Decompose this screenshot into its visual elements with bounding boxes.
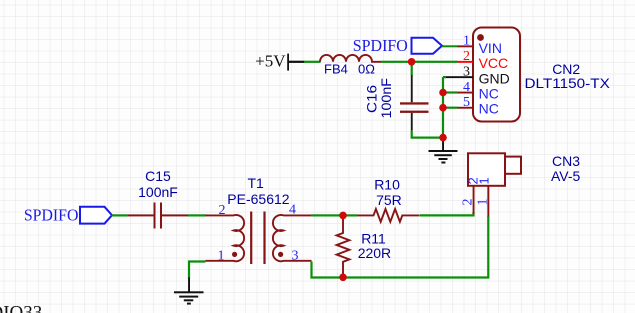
svg-text:R11: R11 [361,231,386,247]
node junction rail/C16 [408,58,416,66]
node R11 top junction [339,212,347,220]
wire R10 to CN3 pin2 [420,212,474,215]
capacitor C15 100nF [128,168,188,229]
svg-text:1: 1 [218,249,225,264]
pin 5 stub [458,107,474,109]
wire pin5 [443,107,458,109]
ground (top, GND net) [429,138,458,164]
wire junction down to C16 [411,62,413,75]
port SPDIFO (bottom) [24,206,112,225]
svg-text:2: 2 [219,203,226,218]
left polarity dot [232,252,237,257]
svg-text:+5V: +5V [255,52,286,71]
wire FB4 to junction to pin2 [381,61,458,63]
node ground junction [439,134,447,142]
svg-text:2: 2 [461,199,476,206]
svg-text:3: 3 [463,65,470,80]
svg-text:220R: 220R [358,245,391,261]
svg-text:VIN: VIN [479,40,502,56]
svg-text:1: 1 [476,199,491,206]
right polarity dot [278,252,283,257]
svg-text:PE-65612: PE-65612 [227,191,289,207]
inductor FB4 0R [320,55,381,77]
svg-text:2: 2 [463,49,470,64]
pin 4 stub [458,92,474,94]
right winding [273,215,312,261]
svg-text:DLT1150-TX: DLT1150-TX [525,75,611,91]
svg-text:1: 1 [463,34,470,49]
node pin5 junction [439,104,447,112]
svg-text:VCC: VCC [479,55,509,71]
svg-text:100nF: 100nF [378,78,394,119]
wire pin3 vertical down [442,77,444,138]
pin 1 stub [487,186,489,217]
ground (below T1) [174,278,204,305]
connector CN3 AV-5 [461,153,581,216]
svg-text:3: 3 [292,249,299,264]
node pin4 junction [439,89,447,97]
wire C15 to T1 pin2 [188,214,206,216]
svg-text:SPDIFO: SPDIFO [24,206,79,225]
svg-text:100nF: 100nF [138,184,178,200]
wire +5V to FB4 [304,61,321,63]
wire C16 bottom to ground junction [412,131,443,138]
svg-text:0Ω: 0Ω [358,61,375,76]
svg-text:NC: NC [479,101,499,117]
svg-text:5: 5 [463,95,470,110]
node R11 bottom junction [339,274,347,282]
wire T1 pin3 to bottom rail to CN3 pin1 [312,216,489,278]
svg-text:NC: NC [479,86,499,102]
wire T1 pin4 to R11 junction to R10 [311,214,358,216]
svg-text:SPDIFO: SPDIFO [353,36,408,55]
svg-text:1: 1 [477,177,492,184]
svg-text:CN3: CN3 [552,153,580,169]
svg-text:4: 4 [289,203,296,218]
svg-text:DIO33: DIO33 [0,302,42,313]
svg-text:C15: C15 [145,168,171,184]
pin 3 stub (black) [445,76,474,78]
svg-text:GND: GND [479,70,510,86]
wire pin4 [443,91,458,93]
pin 2 stub (VCC red) [458,61,474,63]
pin1 dot [477,34,484,41]
wire port to C15 [112,214,129,216]
resistor R11 220R [337,215,392,276]
svg-text:T1: T1 [248,175,265,191]
pin 2 stub [473,186,475,214]
svg-text:R10: R10 [374,177,400,193]
wire port to pin1 [442,45,458,47]
core [250,212,252,265]
svg-text:4: 4 [463,80,470,95]
svg-text:75R: 75R [376,192,402,208]
svg-text:FB4: FB4 [324,61,348,76]
svg-text:AV-5: AV-5 [551,168,581,184]
capacitor C16 100nF [363,75,428,131]
connector CN2 DLT1150-TX [443,28,611,122]
power port +5V [255,52,304,71]
port SPDIFO (top) [353,36,442,55]
pin 1 stub [458,45,474,47]
left winding [206,215,245,261]
wire T1 pin1 to ground [189,262,206,279]
svg-text:C16: C16 [363,85,379,113]
transformer T1 PE-65612 [206,175,312,264]
wire pin3 corner [443,76,446,78]
resistor R10 75R [358,177,420,222]
